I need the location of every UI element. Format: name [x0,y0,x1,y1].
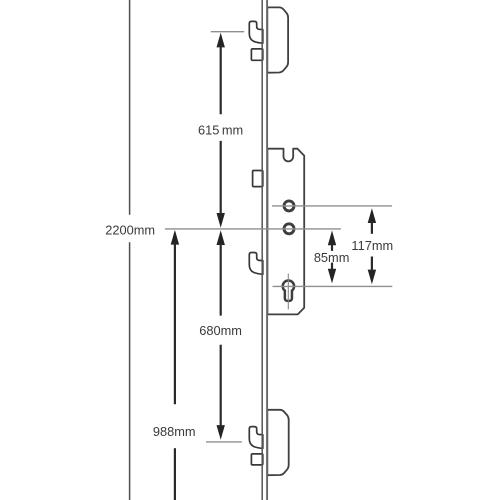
spindle hole lower [284,224,294,234]
85mm dimension [328,231,336,284]
hook bolt middle [249,253,262,275]
2200mm extension line [129,0,131,215]
faceplate strip left edge [261,0,263,500]
svg-text:2200mm: 2200mm [105,222,155,237]
spindle datum line [165,228,341,230]
faceplate strip right edge [266,0,268,500]
anti-lift tab middle [253,171,263,187]
hook bolt bottom [249,427,262,449]
keyhole centre tick [287,274,289,310]
keyhole datum line [273,285,393,287]
central gearbox case [267,149,304,315]
svg-text:988mm: 988mm [153,424,196,439]
svg-text:85mm: 85mm [314,250,350,265]
117mm dimension [368,208,376,284]
svg-text:117mm: 117mm [351,238,393,253]
anti-lift tab bottom [251,454,262,465]
svg-text:615 mm: 615 mm [198,122,243,137]
spindle hole upper [284,201,294,211]
tick line top hook centre [211,31,244,33]
tick line bottom hook centre [206,441,242,443]
euro cylinder keyhole [283,281,294,301]
hook gearbox housing top [267,7,288,72]
svg-text:680mm: 680mm [199,323,242,338]
anti-lift tab top [251,49,262,60]
988mm dimension line [171,230,179,245]
hook gearbox housing bottom [267,410,288,475]
upper hole datum line [272,205,392,207]
615mm dimension line [217,33,225,228]
hook bolt top [249,21,262,43]
680mm dimension line [217,230,225,440]
